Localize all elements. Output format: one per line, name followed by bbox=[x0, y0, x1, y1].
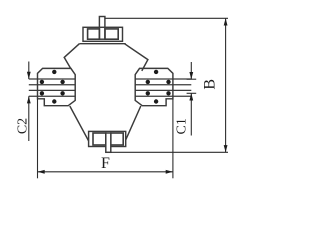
C1 tick lower bbox=[187, 92, 197, 94]
left block pin dot 1 bbox=[52, 70, 56, 74]
arrow C2 down bbox=[27, 72, 31, 79]
arrow F right bbox=[166, 170, 173, 174]
top cup outer rect bbox=[83, 27, 123, 41]
right block pin dot 6 bbox=[154, 99, 158, 103]
dimension line C1 vertical bbox=[190, 62, 192, 136]
left block pin dot 6 bbox=[52, 99, 56, 103]
dimension line B vertical bbox=[225, 18, 227, 152]
svg-text:C2: C2 bbox=[16, 118, 31, 134]
arrow C1 down bbox=[189, 72, 193, 79]
left block pin dot 4 bbox=[40, 91, 44, 95]
top cup inner box right bbox=[105, 29, 118, 39]
body top edge bbox=[79, 43, 125, 45]
B bottom extension line bbox=[111, 151, 228, 153]
left pin line row2 bottom bbox=[29, 95, 75, 97]
svg-text:C1: C1 bbox=[175, 118, 190, 134]
bottom cup inner box left bbox=[93, 133, 106, 145]
dimension line F horizontal bbox=[38, 171, 173, 173]
arrow C2 up bbox=[27, 96, 31, 103]
C1 tick upper bbox=[187, 78, 197, 80]
right block outline bbox=[135, 68, 173, 105]
F extension line left bbox=[37, 99, 39, 178]
arrow B bottom bbox=[224, 145, 228, 152]
body top-right slant bbox=[125, 44, 148, 71]
body bottom-right slant bbox=[126, 106, 141, 140]
body bottom-left slant bbox=[70, 106, 89, 141]
left block pin dot 3 bbox=[60, 80, 64, 84]
bottom cup outer rect bbox=[89, 131, 126, 146]
body top-left slant bbox=[64, 44, 79, 69]
right pin line row1 bottom bbox=[135, 84, 191, 86]
right block pin dot 5 bbox=[146, 91, 150, 95]
left pin line row1 top bbox=[29, 78, 75, 80]
left block pin dot 2 bbox=[40, 80, 44, 84]
right pin line row2 top bbox=[135, 89, 191, 91]
right block pin dot 3 bbox=[146, 80, 150, 84]
left pin line row2 top bbox=[29, 89, 75, 91]
right block pin dot 2 bbox=[166, 80, 170, 84]
svg-text:B: B bbox=[202, 79, 219, 90]
top post P1 bbox=[99, 17, 105, 40]
right pin line row2 bottom bbox=[135, 95, 191, 97]
bottom cup inner box right bbox=[111, 133, 123, 145]
left block outline bbox=[38, 68, 76, 105]
arrow F left bbox=[38, 170, 45, 174]
arrow B top bbox=[224, 18, 228, 25]
F extension line right bbox=[172, 99, 174, 178]
bottom post P2 bbox=[106, 133, 111, 152]
svg-text:F: F bbox=[101, 155, 110, 172]
left pin line row1 bottom bbox=[29, 84, 75, 86]
top cup inner box left bbox=[88, 29, 100, 39]
left block pin dot 5 bbox=[60, 91, 64, 95]
right block pin dot 1 bbox=[154, 70, 158, 74]
arrow C1 up bbox=[189, 93, 193, 100]
dimension line C2 vertical bbox=[28, 62, 30, 142]
right block pin dot 4 bbox=[166, 91, 170, 95]
B top extension line bbox=[105, 17, 228, 19]
right pin line row1 top bbox=[135, 78, 191, 80]
